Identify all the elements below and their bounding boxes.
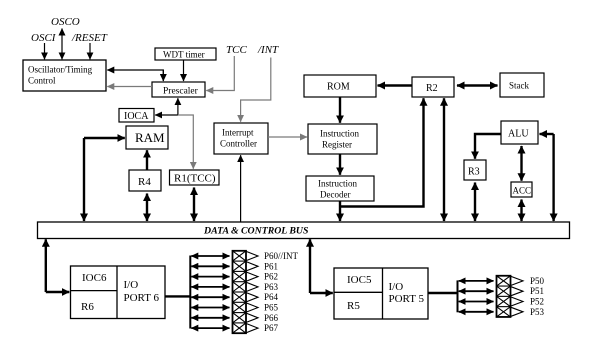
- svg-text:IOC5: IOC5: [347, 274, 372, 286]
- wire instruction register to decoder: [339, 155, 341, 175]
- port6 pin labels: [264, 251, 299, 333]
- svg-text:I/O: I/O: [124, 279, 139, 291]
- pin bus vertical port5: [457, 280, 459, 312]
- svg-text:Decoder: Decoder: [320, 190, 350, 200]
- svg-text:Stack: Stack: [509, 81, 529, 91]
- wire bus to ALU right side: [552, 134, 554, 221]
- svg-text:Control: Control: [28, 76, 56, 86]
- wire R4 to bus double: [146, 194, 148, 222]
- wire bus to port6: [45, 239, 47, 292]
- port5 pin rows: [459, 281, 494, 312]
- port6 pin driver cells: [233, 251, 247, 333]
- svg-text:ACC: ACC: [513, 186, 532, 196]
- svg-text:P65: P65: [264, 303, 279, 313]
- wire oscillator to prescaler top: [107, 70, 163, 81]
- svg-text:WDT timer: WDT timer: [163, 50, 205, 60]
- wire ALU to R3: [475, 134, 501, 159]
- svg-text:P50: P50: [530, 276, 545, 286]
- svg-text:/INT: /INT: [257, 44, 279, 56]
- wire R1 to bus double: [193, 188, 195, 222]
- wire R2 to bus double: [443, 98, 445, 221]
- pin bus vertical port6: [189, 256, 191, 329]
- port6 pin rows: [191, 256, 229, 328]
- wire port6 to pin bus: [165, 295, 190, 297]
- svg-text:P53: P53: [530, 307, 545, 317]
- instruction register box: [308, 124, 377, 154]
- wire ROM to instruction register: [339, 98, 341, 123]
- prescaler box: [152, 82, 205, 97]
- svg-text:RAM: RAM: [135, 130, 165, 145]
- svg-text:IOC6: IOC6: [82, 272, 107, 284]
- wire bus to port5: [309, 239, 311, 293]
- data & control bus box: [38, 222, 570, 239]
- wire /RESET arrow: [89, 43, 91, 59]
- wire bus to RAM (thick L): [84, 137, 125, 139]
- wire prescaler bottom to IOCA junction: [177, 98, 179, 115]
- wire ALU to ACC double: [520, 146, 522, 181]
- wire /INT to interrupt controller (gray): [241, 58, 271, 122]
- wire WDT to prescaler: [183, 61, 185, 82]
- port5 pin output triangles: [511, 276, 523, 316]
- R3 box: [464, 160, 486, 180]
- wire R2 to ROM: [378, 84, 412, 86]
- svg-text:Register: Register: [322, 140, 352, 150]
- ALU box: [501, 121, 538, 144]
- svg-text:P61: P61: [264, 261, 278, 271]
- wire R3 to bus double: [474, 183, 476, 222]
- svg-text:OSCI: OSCI: [31, 32, 57, 44]
- ACC box: [511, 182, 532, 197]
- svg-text:Interrupt: Interrupt: [222, 128, 254, 138]
- port6 block: [71, 266, 166, 319]
- wire decoder branch to R2: [340, 98, 424, 206]
- R2 box: [412, 77, 454, 97]
- interrupt controller box: [214, 123, 268, 154]
- svg-text:/RESET: /RESET: [71, 32, 108, 44]
- svg-text:PORT 6: PORT 6: [124, 292, 160, 304]
- wire R2 to stack double: [457, 84, 498, 86]
- stack box: [500, 73, 544, 97]
- svg-text:R5: R5: [347, 300, 360, 312]
- svg-text:Controller: Controller: [220, 139, 257, 149]
- svg-text:R3: R3: [468, 167, 480, 178]
- wire port5 to pin bus: [428, 292, 458, 294]
- ROM box: [304, 75, 376, 97]
- R1(TCC) box: [170, 170, 220, 185]
- svg-text:IOCA: IOCA: [124, 111, 149, 122]
- port5 block: [334, 268, 428, 319]
- svg-text:P66: P66: [264, 313, 279, 323]
- svg-text:ROM: ROM: [327, 82, 350, 93]
- port5 pin labels: [530, 276, 545, 317]
- wire junction to R1 (gray): [178, 115, 193, 169]
- svg-text:I/O: I/O: [389, 281, 404, 293]
- svg-text:Instruction: Instruction: [318, 179, 357, 189]
- svg-text:P63: P63: [264, 282, 279, 292]
- wire decoder to bus: [339, 201, 341, 221]
- wire prescaler to oscillator (gray): [107, 86, 152, 88]
- wire OSCO double arrow: [61, 29, 63, 60]
- svg-text:Oscillator/Timing: Oscillator/Timing: [28, 65, 93, 75]
- svg-text:OSCO: OSCO: [51, 16, 80, 28]
- svg-text:R1(TCC): R1(TCC): [174, 173, 216, 185]
- IOCA box: [119, 109, 154, 123]
- instruction decoder box: [306, 176, 374, 201]
- wire interrupt controller to instruction register (gray): [268, 136, 307, 138]
- svg-text:P51: P51: [530, 286, 544, 296]
- R4 box: [129, 170, 161, 191]
- port6 pin output triangles: [247, 252, 259, 333]
- WDT timer box: [155, 48, 216, 60]
- svg-text:P60//INT: P60//INT: [264, 251, 299, 261]
- svg-text:P62: P62: [264, 272, 278, 282]
- svg-text:R2: R2: [426, 83, 438, 94]
- svg-text:DATA & CONTROL BUS: DATA & CONTROL BUS: [203, 225, 309, 236]
- svg-text:Instruction: Instruction: [320, 129, 359, 139]
- svg-text:ALU: ALU: [508, 129, 529, 140]
- svg-text:R4: R4: [138, 176, 151, 188]
- wire TCC to prescaler (gray): [206, 56, 234, 91]
- port5 pin driver cells: [497, 276, 511, 317]
- svg-text:PORT 5: PORT 5: [389, 293, 425, 305]
- svg-text:P64: P64: [264, 292, 279, 302]
- wire ACC to bus double: [520, 200, 522, 222]
- wire bus to interrupt controller: [240, 155, 242, 222]
- oscillator/timing control box: [23, 60, 106, 91]
- RAM box: [126, 126, 168, 149]
- wire OSCI arrow: [44, 43, 46, 59]
- svg-text:TCC: TCC: [226, 44, 247, 56]
- svg-text:P67: P67: [264, 323, 279, 333]
- svg-text:Prescaler: Prescaler: [163, 87, 199, 97]
- wire R4 to RAM: [146, 150, 148, 170]
- svg-text:R6: R6: [81, 301, 94, 313]
- svg-text:P52: P52: [530, 297, 544, 307]
